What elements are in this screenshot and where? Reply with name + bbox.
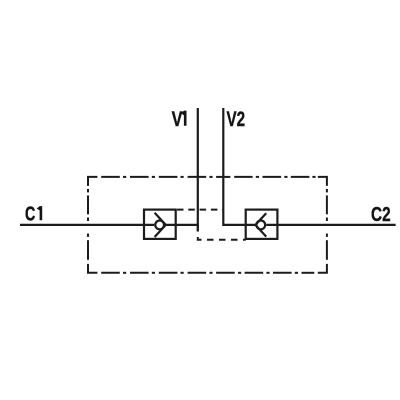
svg-text:V: V <box>172 107 183 131</box>
check valve CV2 seat <box>255 213 266 236</box>
wire C1 port to check valve CV1 ball <box>20 224 154 226</box>
port label V1 <box>172 107 187 131</box>
check valve CV2 ball <box>256 221 265 230</box>
port label C1 <box>25 203 42 225</box>
svg-text:V2: V2 <box>227 107 246 131</box>
check valve CV1 ball <box>155 221 164 230</box>
wire check valve CV2 to C2 port <box>266 224 395 226</box>
wire V1 vertical line <box>197 108 199 232</box>
check valve CV1 seat <box>155 213 166 237</box>
wire CV1 seat to V1 line junction <box>166 224 199 226</box>
check valve CV2 box <box>246 210 278 239</box>
check valve CV1 box <box>144 210 176 239</box>
pilot line (dashed) from V2 line to check valve CV1 <box>177 209 223 211</box>
svg-text:C2: C2 <box>371 204 391 226</box>
pilot line (dashed) from V1 junction to check valve CV2 <box>198 225 246 240</box>
svg-text:C: C <box>25 203 35 225</box>
wire V2 vertical line with elbow to check valve CV2 <box>223 108 255 225</box>
valve body enclosure (dash-dot boundary) <box>88 177 327 273</box>
